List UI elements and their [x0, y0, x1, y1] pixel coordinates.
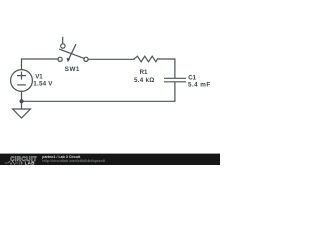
svg-text:R1: R1 — [140, 69, 148, 76]
wire resistor to top-right corner down to capacitor — [158, 59, 175, 78]
switch SW1 arrowhead — [67, 58, 71, 62]
V1 plus sign — [18, 72, 26, 79]
svg-text:http://circuitlab.com/c6k8dbNq: http://circuitlab.com/c6k8dbNqwzx8 — [42, 158, 105, 163]
svg-text:SW1: SW1 — [65, 66, 80, 73]
switch SW1 arm — [60, 49, 85, 58]
svg-text:V1: V1 — [35, 73, 43, 80]
wire ground stem — [21, 101, 23, 109]
switch SW1 right terminal — [84, 57, 88, 61]
wire V1 bottom stem — [21, 91, 23, 101]
switch SW1 actuator arrow — [69, 45, 76, 60]
svg-text:5.4 kΩ: 5.4 kΩ — [134, 77, 155, 84]
switch SW1 left terminal — [58, 57, 62, 61]
wire capacitor bottom to bottom rail and back to junction — [22, 82, 175, 101]
wire switch top stub — [62, 37, 64, 43]
switch SW1 top terminal — [61, 44, 65, 48]
capacitor C1 bottom plate — [165, 81, 186, 83]
junction node dot — [20, 99, 24, 103]
CircuitLab logo capacitor bars — [20, 161, 23, 165]
svg-text:LAB: LAB — [25, 160, 36, 165]
voltage source V1 circle — [11, 70, 33, 92]
svg-text:5.4 mF: 5.4 mF — [188, 81, 211, 88]
CircuitLab logo resistor zigzag — [5, 161, 19, 164]
wire switch right to resistor — [88, 58, 134, 60]
svg-text:1.54 V: 1.54 V — [33, 80, 53, 87]
footer black bar — [0, 154, 220, 165]
ground symbol triangle — [13, 109, 31, 118]
capacitor C1 top plate — [165, 77, 186, 79]
wire left top: V1 top to switch left terminal — [22, 59, 59, 70]
V1 minus sign — [18, 84, 26, 86]
resistor R1 zigzag — [134, 56, 158, 62]
